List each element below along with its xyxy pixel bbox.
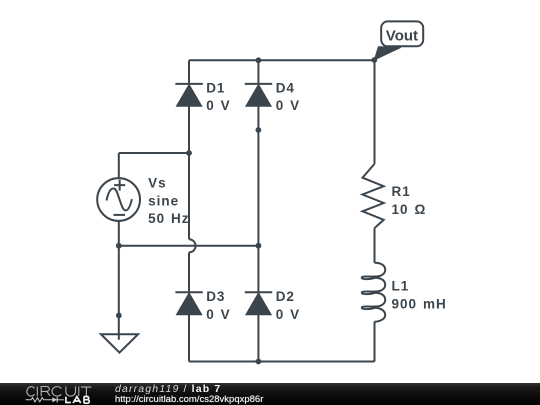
svg-text:D3: D3 [206,289,225,304]
svg-text:sine: sine [148,193,179,208]
voltage source Vs [97,176,189,227]
svg-text:900 mH: 900 mH [392,296,447,311]
CircuitLab logo [0,383,110,405]
wire top rail [189,59,375,61]
svg-text:D2: D2 [276,289,295,304]
footer url text [115,395,263,405]
svg-text:Vout: Vout [386,28,418,45]
wire D2 anode to bottom rail [257,315,259,362]
junction dot source bottom [116,243,122,249]
svg-text:10 Ω: 10 Ω [392,202,427,217]
diode D4 [245,80,300,113]
wire source bottom horizontal [119,245,259,247]
svg-text:0 V: 0 V [276,98,300,113]
wire Vout node to R1 top [374,60,376,164]
svg-text:R1: R1 [392,184,411,199]
resistor R1 [363,164,427,228]
svg-text:0 V: 0 V [276,307,300,322]
node Vout flag [374,21,423,60]
footer bar [0,383,540,405]
wire R1 bottom to L1 top [374,228,376,263]
junction dot bottom horizontal / D4 wire [256,243,262,249]
ground [101,334,138,352]
junction dot top rail / D4 [256,57,262,63]
svg-text:50 Hz: 50 Hz [148,211,189,226]
svg-text:0 V: 0 V [206,98,230,113]
diode D1 [175,80,230,113]
svg-text:D1: D1 [206,80,225,95]
wire hop over horizontal wire [189,239,196,252]
wire hop bottom to D3 cathode [188,252,190,292]
junction dot D4 wire joint [256,127,262,133]
footer user / title text [115,384,221,395]
wire ground stem [118,246,120,340]
wire D4 top lead [257,60,259,84]
junction dot bottom rail / D2 wire [256,359,262,365]
svg-text:0 V: 0 V [206,307,230,322]
junction dot at Vout node [371,57,377,63]
wire D4 anode to D2 cathode [257,106,259,292]
inductor L1 [362,263,447,322]
diode D3 [175,289,230,322]
wire source top lead [118,153,120,178]
diode D2 [245,289,300,322]
svg-text:D4: D4 [276,80,295,95]
wire source bottom lead [118,221,120,246]
wire bottom rail [189,361,375,363]
junction dot ground wire joint [116,313,122,319]
wire D3 anode to bottom rail [188,315,190,362]
wire source top horizontal [119,152,189,154]
wire L1 bottom to rail [374,322,376,362]
svg-text:Vs: Vs [148,176,167,191]
svg-text:L1: L1 [392,279,410,294]
wire D1 top lead [188,60,190,84]
junction dot source top / D1 wire [186,150,192,156]
wire D1 anode down to hop [188,106,190,239]
